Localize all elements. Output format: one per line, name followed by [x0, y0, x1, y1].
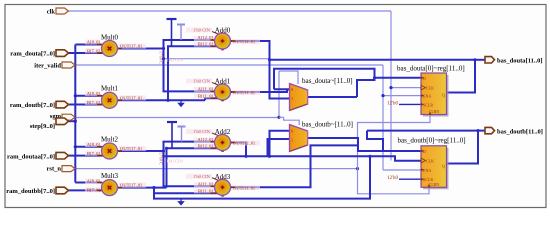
svg-text:1'h0 CIN: 1'h0 CIN: [193, 129, 210, 134]
svg-text:B[12..0]: B[12..0]: [198, 144, 214, 149]
wire rst_n to regB CLRN: [358, 169, 430, 194]
svg-text:OUT[11..0]: OUT[11..0]: [233, 90, 255, 95]
register bas_douta[0]~reg[11..0]: [387, 65, 465, 117]
constant T symbol Add2 CIN: [167, 122, 177, 148]
svg-text:SCLR: SCLR: [423, 102, 433, 107]
wire Add0 OUT to feedback rail: [231, 41, 270, 60]
output port bas_douta[11..0]: [485, 57, 543, 65]
svg-text:rst_n: rst_n: [47, 166, 62, 173]
wire regA Q out: [447, 60, 476, 93]
wire regB Q out: [447, 131, 479, 164]
junction Mult2 OUT split: [162, 149, 165, 152]
svg-text:B[11..0]: B[11..0]: [198, 188, 214, 193]
svg-text:12'h0: 12'h0: [387, 102, 398, 107]
wire step to Mult2 A: [75, 146, 101, 148]
wire iter_valid horizontal: [75, 64, 383, 66]
svg-text:B[7..0]: B[7..0]: [87, 187, 100, 192]
wire Add1 OUT: [231, 90, 290, 93]
svg-text:Mult1: Mult1: [101, 85, 119, 93]
multiplier Mult2: [87, 136, 142, 160]
wire Mult1 OUT to Add0 B: [168, 46, 223, 100]
wire muxA upper rail: [274, 69, 375, 97]
wire light rail: [164, 58, 270, 60]
junction regB Q port tap: [476, 129, 479, 132]
svg-text:B[7..0]: B[7..0]: [87, 100, 100, 105]
junction trunk muxB tap: [268, 155, 271, 158]
svg-text:OUT[12..0]: OUT[12..0]: [233, 141, 255, 146]
svg-text:17'h0 C: 17'h0 C: [159, 51, 164, 64]
svg-text:bas_doutb[0]~reg[11..0]: bas_doutb[0]~reg[11..0]: [398, 137, 466, 145]
wire regA Q feedback rail: [270, 60, 476, 99]
junction sgm sel split: [277, 116, 280, 119]
wire sgm horizontal: [75, 117, 279, 119]
svg-text:bas_douta[0]~reg[11..0]: bas_douta[0]~reg[11..0]: [397, 65, 465, 73]
svg-text:Mult2: Mult2: [101, 136, 119, 144]
svg-text:D: D: [423, 149, 426, 154]
svg-text:CLK: CLK: [426, 159, 434, 164]
svg-text:clk: clk: [47, 9, 56, 16]
svg-text:A[8..0]: A[8..0]: [87, 142, 101, 147]
constant T symbol Add0 CIN: [167, 19, 177, 46]
svg-text:ENA: ENA: [423, 94, 431, 99]
wire Mult2 OUT to Add2 A: [164, 142, 216, 151]
input port ram_doutb[7..0]: [10, 101, 69, 109]
svg-text:1'h0 CIN: 1'h0 CIN: [193, 79, 210, 84]
svg-text:bas_douta~[11..0]: bas_douta~[11..0]: [302, 77, 353, 85]
wire muxA out: [308, 96, 357, 98]
wire regA D row: [375, 77, 422, 79]
wire regA Q to output port: [475, 59, 485, 61]
input port ram_doutbb[7..0]: [6, 187, 68, 195]
wire Mult1 OUT: [118, 99, 205, 101]
wire ram_douta to Mult0 B: [68, 52, 103, 54]
junction Add0 feedback: [268, 58, 271, 61]
input port clk: [47, 8, 69, 16]
svg-text:iter_valid: iter_valid: [34, 63, 61, 70]
wire regB port rail: [367, 130, 485, 132]
register bas_doutb[0]~reg[11..0]: [387, 137, 465, 190]
svg-text:1: 1: [291, 96, 293, 101]
svg-text:Q: Q: [442, 93, 445, 98]
junction Mult0 OUT split: [162, 47, 165, 50]
constant T symbol Add2 A pad: [178, 127, 186, 142]
junction Mult1 OUT split: [166, 99, 169, 102]
wire regA SCLR stub: [399, 103, 421, 105]
wire Mult0 OUT to Add1 A: [164, 49, 216, 92]
wire muxA select drop: [279, 71, 298, 84]
svg-text:1'h0 CIN: 1'h0 CIN: [166, 159, 183, 164]
wire iter_valid vertical: [382, 65, 384, 170]
wire Mult3 OUT to Add2 B riser: [167, 148, 223, 187]
wire muxB out to regB D: [308, 138, 421, 151]
svg-text:B[7..0]: B[7..0]: [87, 151, 100, 156]
svg-text:OUT[17..0]: OUT[17..0]: [120, 44, 142, 49]
adder CIN stubs and bottom pins: [212, 32, 224, 197]
wire step vertical distribution bus: [74, 45, 76, 183]
pin stubs brown: [97, 40, 235, 193]
svg-text:Add0: Add0: [215, 27, 231, 35]
svg-text:ram_doutb[7..0]: ram_doutb[7..0]: [10, 102, 55, 109]
svg-text:A[12..0]: A[12..0]: [197, 35, 213, 40]
svg-text:Add1: Add1: [215, 78, 231, 86]
wire clk horizontal: [68, 10, 391, 12]
junction Mult3 OUT split: [152, 186, 155, 189]
svg-text:ram_doutbb[7..0]: ram_doutbb[7..0]: [6, 188, 55, 195]
junction trunk right riser: [368, 155, 371, 158]
junction step Mult2: [74, 145, 77, 148]
adder Add1: [193, 78, 255, 101]
wire Mult0 OUT to Add0 A: [164, 40, 216, 49]
input port ram_doutaa[7..0]: [7, 152, 69, 160]
wire ram_doutbb to Mult3 B: [68, 189, 103, 191]
svg-text:OUT[12..0]: OUT[12..0]: [233, 39, 255, 44]
svg-text:A[8..0]: A[8..0]: [87, 40, 101, 45]
svg-text:D: D: [423, 76, 426, 81]
svg-text:OUT[11..0]: OUT[11..0]: [233, 185, 255, 190]
output port bas_doutb[11..0]: [485, 127, 543, 135]
svg-text:Q: Q: [442, 164, 445, 169]
adder Add3: [193, 173, 255, 196]
svg-text:1'h0 CIN: 1'h0 CIN: [193, 174, 210, 179]
svg-text:CLRN: CLRN: [429, 182, 440, 187]
wire muxB in1 feed: [268, 139, 290, 156]
wire Mult3 OUT: [118, 187, 167, 189]
wire step to Mult3 A: [75, 182, 101, 184]
svg-text:A[8..0]: A[8..0]: [87, 91, 101, 96]
svg-text:B[7..0]: B[7..0]: [87, 48, 100, 53]
wire Mult2 OUT: [118, 150, 164, 152]
svg-text:1'h0 CIN: 1'h0 CIN: [193, 28, 210, 33]
svg-text:A[11..0]: A[11..0]: [198, 87, 214, 92]
svg-text:B[11..0]: B[11..0]: [198, 93, 214, 98]
wire Mult2 OUT to Add3 A: [164, 151, 216, 186]
svg-text:Add2: Add2: [215, 128, 231, 136]
adder Add0: [193, 27, 255, 50]
wire rst_n horizontal: [75, 168, 358, 170]
register pin arrows: [421, 76, 432, 187]
svg-text:1: 1: [291, 138, 293, 143]
svg-text:OUT[17..0]: OUT[17..0]: [120, 146, 142, 151]
junction iter_valid regA: [381, 94, 384, 97]
input port ram_douta[7..0]: [10, 50, 68, 58]
junction step port: [74, 120, 77, 123]
wire Add2 OUT to trunk: [231, 143, 246, 157]
ground symbol Add1 CIN: [177, 100, 185, 107]
wire clk vertical to registers: [390, 11, 392, 161]
wire Mult3 OUT to Add3 B: [154, 188, 223, 194]
wire Mult3 OUT lower trunk: [154, 156, 370, 198]
wire rst_n to regA CLRN: [358, 115, 431, 169]
wire iter_valid to regA ENA: [383, 95, 421, 97]
junction step Mult1: [74, 94, 77, 97]
wire regB port rail to D tap: [367, 131, 383, 151]
svg-text:bas_doutb[11..0]: bas_doutb[11..0]: [497, 128, 543, 135]
junction regA Q port tap: [473, 58, 476, 61]
svg-text:12'h0: 12'h0: [387, 176, 398, 181]
wire ram_doutb to Mult1 B: [68, 104, 103, 106]
wire Mult0 OUT: [118, 48, 164, 50]
mux bas_doutb~[11..0]: [290, 121, 353, 152]
junction trunk left tap: [244, 155, 247, 158]
svg-text:ram_doutaa[7..0]: ram_doutaa[7..0]: [7, 153, 55, 160]
ground symbol Add3 CIN: [177, 199, 185, 206]
svg-text:bas_doutb~[11..0]: bas_doutb~[11..0]: [302, 121, 353, 129]
junction Add2B riser: [165, 147, 168, 150]
svg-text:Mult0: Mult0: [101, 34, 119, 42]
svg-text:A[11..0]: A[11..0]: [198, 182, 214, 187]
mux bas_douta~[11..0]: [290, 77, 353, 111]
svg-text:B[12..0]: B[12..0]: [198, 42, 214, 47]
svg-text:Mult3: Mult3: [101, 172, 119, 180]
wire step to Mult1 A: [75, 95, 101, 97]
wire trunk to muxB in0: [270, 131, 290, 157]
junction muxA D tap: [373, 76, 376, 79]
multiplier Mult3: [87, 172, 142, 196]
svg-text:step[9..0]: step[9..0]: [30, 123, 55, 130]
wire iter_valid to regB ENA: [383, 169, 421, 171]
junction clk regA: [389, 86, 392, 89]
adder Add2: [193, 128, 255, 151]
wire clk to regA CLK: [391, 87, 421, 89]
wire regB SCLR stub: [399, 178, 421, 180]
svg-text:ram_douta[7..0]: ram_douta[7..0]: [10, 51, 55, 58]
wire step to Mult0 A: [75, 44, 101, 46]
multiplier Mult1: [87, 85, 142, 109]
input port rst_n: [47, 166, 75, 173]
svg-text:1'h0 CIN: 1'h0 CIN: [166, 58, 183, 63]
wire lower trunk horizontal: [164, 156, 422, 160]
svg-text:ENA: ENA: [423, 168, 431, 173]
svg-text:OUT[17..0]: OUT[17..0]: [120, 183, 142, 188]
svg-text:A[8..0]: A[8..0]: [87, 179, 101, 184]
wire ram_doutaa to Mult2 B: [68, 155, 103, 157]
junction rst_n split: [356, 167, 359, 170]
wire Mult1 OUT to Add1 B: [205, 98, 223, 100]
input port iter_valid: [34, 62, 75, 70]
svg-text:bas_douta[11..0]: bas_douta[11..0]: [497, 58, 543, 65]
svg-text:A[12..0]: A[12..0]: [197, 137, 213, 142]
svg-text:17'h0 C: 17'h0 C: [159, 152, 164, 165]
wire sgm rise to sel rail: [278, 71, 280, 118]
constant T symbol Add0 A pad: [177, 25, 185, 41]
input port sgm: [50, 113, 75, 120]
input port step[9..0]: [30, 118, 69, 130]
wire Add3 OUT: [231, 145, 358, 187]
wire step bus stub: [68, 120, 75, 122]
svg-text:CLK: CLK: [426, 86, 434, 91]
label pink halo tints: [85, 28, 260, 194]
svg-text:OUT[17..0]: OUT[17..0]: [120, 95, 142, 100]
wire sgm to muxB select: [279, 117, 299, 125]
junction light rail: [162, 57, 165, 60]
multiplier Mult0: [87, 34, 142, 57]
svg-text:Add3: Add3: [215, 173, 231, 181]
